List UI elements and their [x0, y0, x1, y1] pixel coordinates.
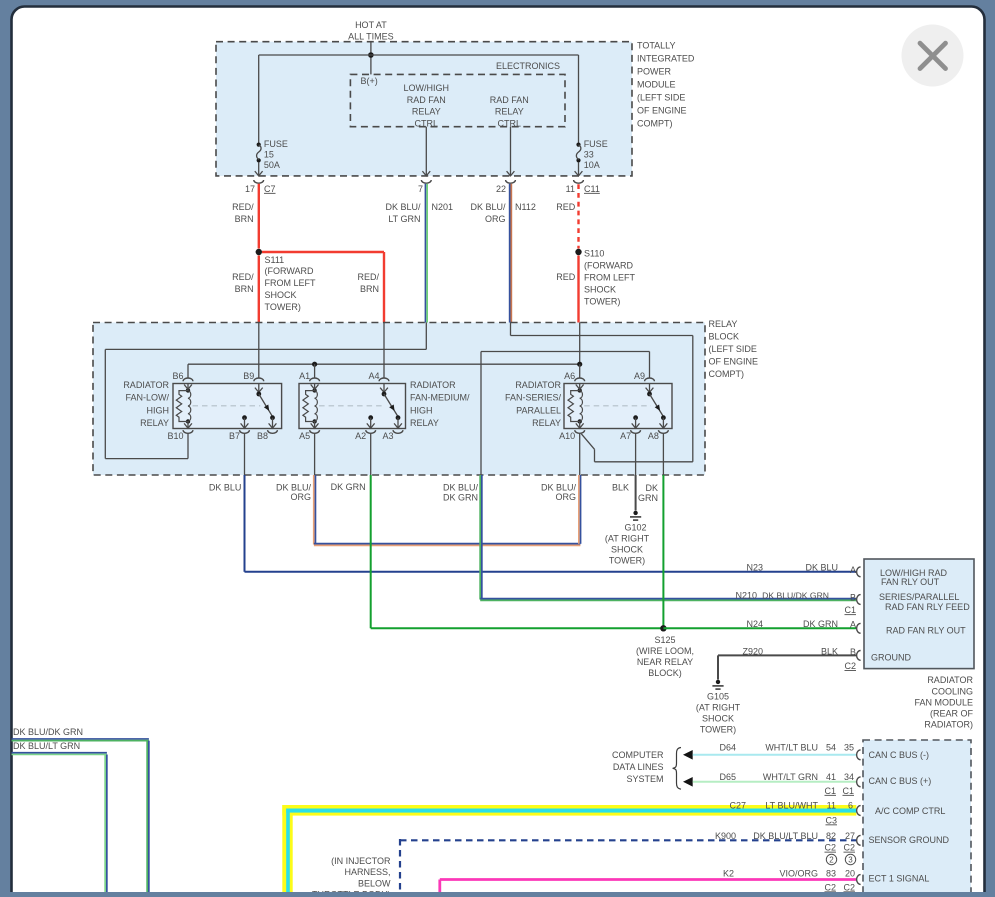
- svg-text:(AT RIGHT: (AT RIGHT: [696, 703, 741, 713]
- TIPM electronics inner dashed box: [350, 74, 565, 126]
- svg-text:S110: S110: [584, 249, 604, 259]
- relay K2 radiator fan medium/high coil terminal wires: [314, 384, 316, 390]
- relay K1 radiator fan low/high contacts: [242, 415, 247, 420]
- svg-text:RADIATOR: RADIATOR: [410, 380, 456, 390]
- fuse F33 10A: [576, 143, 580, 147]
- svg-text:G105: G105: [707, 692, 729, 702]
- arrow to data lines D65: [683, 777, 693, 787]
- wire RED/BRN S111 to relay B9: [258, 256, 260, 323]
- radiator cooling fan module box: [864, 559, 974, 669]
- svg-text:A3: A3: [382, 431, 393, 441]
- svg-text:33: 33: [584, 149, 594, 159]
- svg-text:C2: C2: [843, 882, 855, 892]
- wire VIO/ORG K2 ECT 1 signal highlighted pink: [440, 878, 856, 881]
- wire fuse15 to connector C7 pin 17: [258, 162, 260, 176]
- svg-text:HIGH: HIGH: [147, 405, 170, 415]
- svg-text:PARALLEL: PARALLEL: [516, 405, 561, 415]
- svg-text:VIO/ORG: VIO/ORG: [779, 869, 818, 879]
- svg-text:A9: A9: [634, 371, 645, 381]
- svg-text:CAN C BUS (+): CAN C BUS (+): [869, 776, 932, 786]
- svg-text:SHOCK: SHOCK: [611, 545, 643, 555]
- wire RED S110 to relay coil bus: [577, 256, 579, 323]
- svg-text:RELAY: RELAY: [709, 319, 738, 329]
- svg-text:BELOW: BELOW: [358, 878, 391, 888]
- svg-text:D65: D65: [719, 772, 736, 782]
- svg-text:RED/: RED/: [357, 272, 379, 282]
- svg-text:HIGH: HIGH: [410, 405, 433, 415]
- node A1 bus junction: [312, 362, 317, 367]
- close button: [902, 25, 964, 87]
- relay K1 radiator fan low/high switch: [258, 384, 260, 393]
- wire WHT/LT BLU D64 CAN C bus minus: [693, 754, 856, 756]
- svg-text:A5: A5: [299, 431, 310, 441]
- svg-text:7: 7: [418, 184, 423, 194]
- svg-text:3: 3: [848, 856, 853, 865]
- svg-text:DK BLU/: DK BLU/: [385, 202, 421, 212]
- svg-text:FUSE: FUSE: [584, 139, 608, 149]
- relay K1 radiator fan low/high terminal arcs: [183, 378, 193, 381]
- relay K1 radiator fan low/high coil terminal wires: [187, 384, 189, 390]
- ground G105: [716, 680, 720, 684]
- svg-text:WHT/LT GRN: WHT/LT GRN: [763, 772, 818, 782]
- svg-text:DK BLU/LT GRN: DK BLU/LT GRN: [13, 741, 80, 751]
- relay K3 radiator fan series/parallel contacts: [633, 415, 638, 420]
- svg-text:15: 15: [264, 149, 274, 159]
- svg-text:DK BLU: DK BLU: [805, 563, 838, 573]
- svg-text:11: 11: [566, 184, 575, 194]
- svg-text:C2: C2: [844, 661, 856, 671]
- svg-text:C1: C1: [824, 786, 836, 796]
- svg-text:B: B: [850, 647, 856, 657]
- relay block dashed box: [93, 323, 705, 476]
- svg-text:FAN-MEDIUM/: FAN-MEDIUM/: [410, 393, 470, 403]
- svg-text:BRN: BRN: [360, 284, 379, 294]
- svg-text:(AT RIGHT: (AT RIGHT: [605, 534, 650, 544]
- ground G102: [633, 511, 637, 515]
- svg-text:RED: RED: [556, 202, 576, 212]
- relay K2 radiator fan medium/high switch: [383, 384, 385, 393]
- svg-text:11: 11: [827, 800, 836, 810]
- svg-text:A: A: [850, 620, 856, 630]
- svg-text:RELAY: RELAY: [412, 107, 441, 117]
- relay K1 radiator fan low/high internal dashed link: [193, 405, 261, 407]
- svg-text:B(+): B(+): [361, 76, 378, 86]
- svg-text:N112: N112: [515, 202, 536, 212]
- relay K2 radiator fan medium/high contacts: [368, 415, 373, 420]
- svg-text:TOTALLY: TOTALLY: [637, 41, 676, 51]
- relay K3 radiator fan series/parallel switch: [649, 384, 651, 393]
- svg-text:ELECTRONICS: ELECTRONICS: [496, 61, 560, 71]
- svg-text:ORG: ORG: [290, 492, 311, 502]
- wire down to fuse 15: [258, 55, 260, 143]
- relay K3 radiator fan series/parallel coil: [578, 388, 582, 392]
- svg-text:GRN: GRN: [638, 493, 658, 503]
- svg-text:BLK: BLK: [821, 647, 838, 657]
- svg-text:A: A: [850, 565, 856, 575]
- svg-text:6: 6: [848, 800, 853, 810]
- svg-text:B: B: [850, 592, 856, 602]
- svg-text:(REAR OF: (REAR OF: [930, 709, 974, 719]
- splice S125: [660, 625, 666, 631]
- wire low/high rad fan relay ctrl output pin 7: [425, 127, 427, 176]
- fuse F15 50A: [257, 143, 261, 147]
- wire down to fuse 33: [578, 55, 580, 143]
- wire DK BLU from B7 to fan module pin A: [244, 475, 246, 572]
- svg-text:(FORWARD: (FORWARD: [265, 266, 314, 276]
- computer data lines brace: [673, 748, 681, 790]
- relay K1 radiator fan low/high coil: [186, 388, 190, 392]
- wire feed bus to fuses: [259, 54, 579, 56]
- relay K2 radiator fan medium/high coil: [312, 388, 316, 392]
- wire DK BLU/ORG from A10: [578, 475, 580, 544]
- wire B7 lead inside block: [244, 433, 246, 475]
- svg-text:DK BLU/: DK BLU/: [470, 202, 506, 212]
- svg-text:OF ENGINE: OF ENGINE: [637, 106, 687, 116]
- svg-text:C1: C1: [842, 786, 854, 796]
- svg-text:S111: S111: [265, 255, 285, 265]
- wire low/high ctrl path pin7 to B10: [425, 323, 427, 350]
- svg-text:S125: S125: [654, 635, 675, 645]
- svg-text:54: 54: [826, 742, 836, 752]
- svg-text:COOLING: COOLING: [931, 686, 973, 696]
- svg-text:20: 20: [845, 869, 855, 879]
- svg-text:DK GRN: DK GRN: [803, 619, 838, 629]
- coil supply bus wire: [188, 363, 580, 365]
- svg-text:17: 17: [245, 184, 255, 194]
- relay K3 radiator fan series/parallel terminal arcs: [575, 378, 585, 381]
- wire A5 lead inside block: [314, 433, 316, 475]
- svg-text:D64: D64: [719, 742, 736, 752]
- svg-text:FAN RLY OUT: FAN RLY OUT: [881, 577, 940, 587]
- svg-text:DK BLU/DK GRN: DK BLU/DK GRN: [13, 727, 83, 737]
- relay K2 radiator fan medium/high internal dashed link: [319, 405, 385, 407]
- svg-text:B7: B7: [229, 431, 240, 441]
- PCM dashed box: [863, 740, 971, 897]
- svg-text:WHT/LT BLU: WHT/LT BLU: [765, 742, 818, 752]
- svg-text:A8: A8: [648, 431, 659, 441]
- svg-text:TOWER): TOWER): [609, 556, 645, 566]
- svg-text:RAD FAN RLY FEED: RAD FAN RLY FEED: [885, 602, 970, 612]
- svg-text:LT BLU/WHT: LT BLU/WHT: [765, 800, 818, 810]
- svg-text:27: 27: [845, 831, 855, 841]
- wire DK BLU/LT BLU K900 sensor ground: [400, 839, 856, 841]
- svg-text:SYSTEM: SYSTEM: [626, 774, 663, 784]
- svg-text:RADIATOR: RADIATOR: [927, 675, 973, 685]
- svg-text:DK BLU/: DK BLU/: [443, 482, 479, 492]
- fan module pin arcs: [857, 567, 861, 577]
- wire A6 coil feed inside block: [579, 323, 581, 365]
- svg-text:N24: N24: [746, 619, 763, 629]
- svg-text:DK BLU/LT BLU: DK BLU/LT BLU: [753, 831, 818, 841]
- wire WHT/LT GRN D65 CAN C bus plus: [693, 781, 856, 783]
- svg-text:K2: K2: [723, 869, 734, 879]
- svg-text:MODULE: MODULE: [637, 80, 676, 90]
- svg-text:K900: K900: [715, 831, 736, 841]
- svg-text:RADIATOR): RADIATOR): [924, 720, 973, 730]
- svg-text:(FORWARD: (FORWARD: [584, 261, 633, 271]
- relay K3 radiator fan series/parallel box: [564, 384, 672, 429]
- arrow to data lines D64: [683, 750, 693, 760]
- svg-text:RADIATOR: RADIATOR: [515, 380, 561, 390]
- wire B9 feed inside block: [258, 323, 260, 378]
- wire DK BLU/LT GRN N201 from pin 7: [424, 184, 426, 323]
- wire A2 lead inside block: [370, 433, 372, 475]
- svg-text:RELAY: RELAY: [532, 418, 561, 428]
- svg-text:(LEFT SIDE: (LEFT SIDE: [709, 344, 757, 354]
- svg-text:C1: C1: [844, 605, 856, 615]
- svg-text:DK BLU/DK GRN: DK BLU/DK GRN: [762, 591, 829, 601]
- wire RED/BRN branch S111 to relay A4: [262, 251, 384, 253]
- svg-text:50A: 50A: [264, 160, 280, 170]
- svg-text:2: 2: [829, 856, 834, 865]
- wire fuse33 to connector C11 pin 11: [578, 162, 580, 176]
- svg-text:B6: B6: [172, 371, 183, 381]
- wire A7 lead inside block: [635, 433, 637, 475]
- svg-text:N23: N23: [746, 563, 763, 573]
- svg-text:C2: C2: [843, 843, 855, 853]
- svg-text:A7: A7: [620, 431, 631, 441]
- wire A4 feed inside block: [383, 323, 385, 378]
- svg-text:BRN: BRN: [235, 214, 254, 224]
- wire A10 lead inside block: [579, 433, 581, 475]
- svg-text:FROM LEFT: FROM LEFT: [584, 273, 636, 283]
- svg-text:RED: RED: [556, 272, 576, 282]
- svg-text:C11: C11: [584, 184, 600, 194]
- svg-text:OF ENGINE: OF ENGINE: [709, 356, 759, 366]
- svg-text:C7: C7: [264, 184, 276, 194]
- svg-text:A1: A1: [299, 371, 310, 381]
- svg-text:CTRL: CTRL: [498, 118, 522, 128]
- wire DK GRN from A8 to splice S125: [662, 475, 664, 628]
- svg-text:ECT 1 SIGNAL: ECT 1 SIGNAL: [869, 874, 930, 884]
- svg-text:B8: B8: [257, 431, 268, 441]
- svg-text:BLK: BLK: [612, 482, 629, 492]
- svg-text:B9: B9: [243, 371, 254, 381]
- svg-text:INTEGRATED: INTEGRATED: [637, 54, 695, 64]
- node battery feed junction: [368, 52, 374, 58]
- svg-text:A2: A2: [355, 431, 366, 441]
- svg-text:RELAY: RELAY: [495, 107, 524, 117]
- svg-text:NEAR RELAY: NEAR RELAY: [637, 657, 693, 667]
- wire RED/BRN from C7 to splice S111: [258, 184, 260, 249]
- svg-text:LOW/HIGH: LOW/HIGH: [404, 83, 450, 93]
- svg-text:G102: G102: [624, 523, 646, 533]
- svg-text:HARNESS,: HARNESS,: [344, 867, 390, 877]
- svg-text:DK GRN: DK GRN: [443, 492, 478, 502]
- svg-text:(LEFT SIDE: (LEFT SIDE: [637, 93, 685, 103]
- relay K2 radiator fan medium/high terminal arcs: [310, 378, 320, 381]
- connector exit C7 pin 17: [255, 171, 263, 176]
- svg-text:RED/: RED/: [232, 272, 254, 282]
- svg-text:ORG: ORG: [555, 492, 576, 502]
- svg-text:SHOCK: SHOCK: [702, 714, 734, 724]
- svg-text:COMPT): COMPT): [709, 369, 745, 379]
- wire DK GRN N24 from S125 to fan module pin A: [663, 627, 856, 629]
- svg-text:FAN MODULE: FAN MODULE: [914, 697, 973, 707]
- svg-text:RELAY: RELAY: [410, 418, 439, 428]
- wire A8 lead inside block: [662, 433, 664, 475]
- svg-text:DK BLU/: DK BLU/: [276, 482, 312, 492]
- highlighted wire LT BLU/WHT C27 A/C comp ctrl: [282, 805, 856, 816]
- relay K3 radiator fan series/parallel coil terminal wires: [579, 384, 581, 390]
- node A6 bus junction: [577, 362, 582, 367]
- connector exit pin 22: [507, 171, 515, 176]
- svg-text:TOWER): TOWER): [700, 725, 736, 735]
- svg-text:RELAY: RELAY: [140, 418, 169, 428]
- svg-text:FAN-SERIES/: FAN-SERIES/: [505, 393, 562, 403]
- svg-text:DK: DK: [645, 483, 658, 493]
- svg-text:Z920: Z920: [742, 647, 763, 657]
- splice S110: [575, 249, 581, 255]
- svg-text:82: 82: [826, 831, 836, 841]
- svg-text:BRN: BRN: [235, 284, 254, 294]
- svg-text:RAD FAN: RAD FAN: [490, 95, 529, 105]
- svg-text:DATA LINES: DATA LINES: [613, 762, 664, 772]
- svg-text:SHOCK: SHOCK: [584, 285, 616, 295]
- wire RED dashed from C11 to splice S110: [577, 184, 579, 248]
- svg-text:C3: C3: [825, 815, 837, 825]
- svg-text:C2: C2: [824, 843, 836, 853]
- svg-text:N210: N210: [735, 591, 757, 601]
- svg-text:DK BLU/: DK BLU/: [541, 482, 577, 492]
- svg-text:C2: C2: [824, 882, 836, 892]
- svg-text:FAN-LOW/: FAN-LOW/: [125, 393, 169, 403]
- svg-text:HOT AT: HOT AT: [355, 20, 387, 30]
- splice S111: [256, 249, 262, 255]
- svg-text:ALL TIMES: ALL TIMES: [348, 32, 394, 42]
- svg-text:N201: N201: [432, 202, 454, 212]
- wire rad fan relay ctrl output pin 22: [510, 127, 512, 176]
- svg-text:BLOCK): BLOCK): [648, 668, 682, 678]
- svg-text:A4: A4: [368, 371, 379, 381]
- svg-text:TOWER): TOWER): [265, 302, 301, 312]
- svg-text:C27: C27: [729, 800, 746, 810]
- connector index circles: [826, 854, 836, 864]
- connector exit C11 pin 11: [575, 171, 583, 176]
- svg-text:(WIRE LOOM,: (WIRE LOOM,: [636, 646, 694, 656]
- svg-text:SHOCK: SHOCK: [265, 290, 297, 300]
- svg-text:RED/: RED/: [232, 202, 254, 212]
- wire BLK Z920 from fan module pin B to ground G105: [718, 654, 856, 656]
- PCM pin arcs: [857, 750, 861, 760]
- TIPM module U1 dashed box: [216, 42, 632, 176]
- svg-text:B10: B10: [167, 431, 183, 441]
- relay K2 radiator fan medium/high box: [299, 384, 406, 429]
- svg-text:ORG: ORG: [485, 214, 506, 224]
- svg-text:RADIATOR: RADIATOR: [123, 380, 169, 390]
- wire DK GRN from A2 to splice S125: [370, 475, 372, 628]
- relay K1 radiator fan low/high box: [173, 384, 282, 429]
- svg-text:35: 35: [844, 742, 854, 752]
- svg-text:RAD FAN RLY OUT: RAD FAN RLY OUT: [886, 625, 966, 635]
- svg-text:COMPT): COMPT): [637, 119, 673, 129]
- wire DK BLU/ORG from A5: [313, 475, 315, 545]
- svg-text:LT GRN: LT GRN: [388, 214, 420, 224]
- svg-text:GROUND: GROUND: [871, 653, 911, 663]
- svg-text:SERIES/PARALLEL: SERIES/PARALLEL: [879, 592, 959, 602]
- svg-text:FUSE: FUSE: [264, 139, 288, 149]
- wire rad fan ctrl path pin22 to A10: [510, 323, 512, 336]
- svg-text:RAD FAN: RAD FAN: [407, 95, 446, 105]
- svg-text:(IN INJECTOR: (IN INJECTOR: [331, 856, 391, 866]
- svg-text:BLOCK: BLOCK: [709, 331, 740, 341]
- svg-text:A6: A6: [564, 371, 575, 381]
- svg-text:POWER: POWER: [637, 67, 672, 77]
- svg-text:34: 34: [844, 772, 854, 782]
- relay K3 radiator fan series/parallel internal dashed link: [584, 405, 651, 407]
- svg-text:10A: 10A: [584, 160, 600, 170]
- injector harness dashed box: [399, 839, 401, 892]
- svg-text:A10: A10: [559, 431, 575, 441]
- svg-text:CAN C BUS (-): CAN C BUS (-): [869, 750, 930, 760]
- svg-text:FROM LEFT: FROM LEFT: [265, 278, 317, 288]
- svg-text:SENSOR GROUND: SENSOR GROUND: [869, 835, 950, 845]
- wire BLK from A7 to ground G102: [635, 475, 637, 511]
- svg-text:DK BLU: DK BLU: [209, 482, 242, 492]
- wire B+ feed from HOT AT ALL TIMES: [370, 42, 372, 75]
- svg-text:83: 83: [826, 869, 836, 879]
- wire A9 feed to series/parallel output: [480, 352, 482, 476]
- svg-text:COMPUTER: COMPUTER: [612, 750, 664, 760]
- svg-text:22: 22: [496, 184, 506, 194]
- wire DK BLU/ORG N112 from pin 22: [509, 184, 511, 323]
- wire DK BLU/DK GRN N210 from A9 to fan module pin B: [479, 475, 481, 600]
- svg-text:41: 41: [826, 772, 836, 782]
- svg-text:A/C COMP CTRL: A/C COMP CTRL: [875, 806, 945, 816]
- svg-text:DK GRN: DK GRN: [331, 482, 366, 492]
- svg-text:TOWER): TOWER): [584, 297, 620, 307]
- connector exit pin 7: [422, 171, 430, 176]
